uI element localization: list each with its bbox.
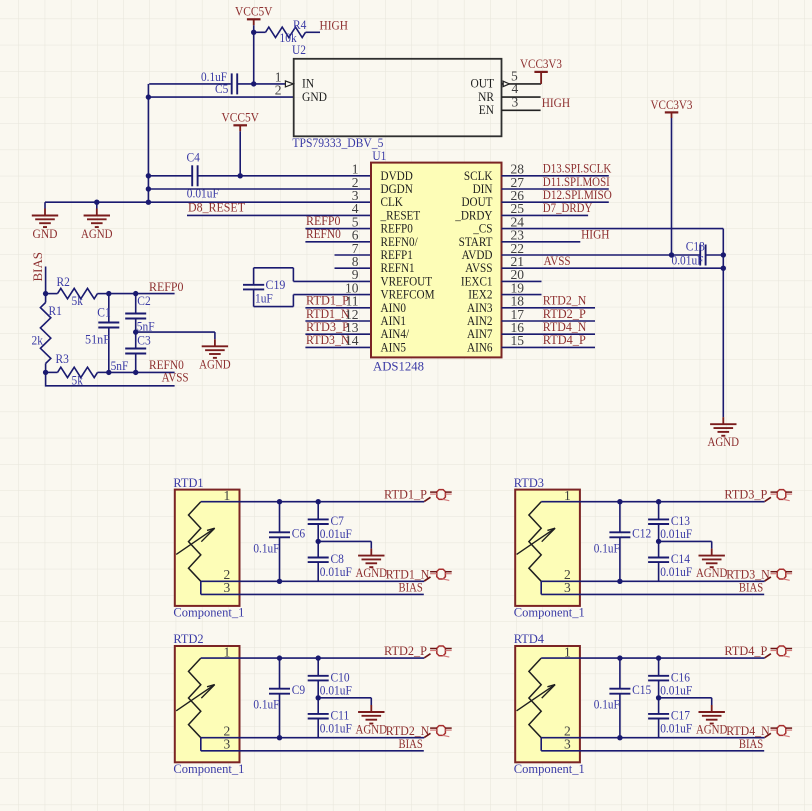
resistor R1 (40, 303, 50, 364)
ground AGND (bottom of right column) (722, 417, 724, 424)
wire pin1 RTD1 (201, 501, 424, 503)
svg-text:AGND: AGND (708, 434, 740, 449)
svg-text:3: 3 (224, 580, 231, 595)
svg-text:0.01uF: 0.01uF (320, 564, 352, 579)
svg-text:0.01uF: 0.01uF (660, 526, 692, 541)
capacitor C13 (658, 502, 660, 520)
svg-text:GND: GND (33, 226, 58, 241)
wire U1 pin 20 stub (502, 280, 542, 282)
wire BIAS vertical (45, 267, 47, 294)
wire to AGND (R network) (136, 331, 215, 333)
svg-text:2k: 2k (32, 333, 44, 348)
connector RTD3_N (765, 577, 771, 581)
net label D11.SPI.MOSI / wire U1 pin 27 (502, 188, 609, 190)
svg-text:HIGH: HIGH (581, 227, 609, 242)
svg-text:0.01uF: 0.01uF (320, 682, 352, 697)
node R1/R2 junction (43, 291, 48, 296)
ground AGND (top) (94, 200, 99, 205)
RTD zigzag RTD1 (189, 502, 201, 582)
capacitor C16 (658, 658, 660, 676)
wire U1 pin 7 stub (335, 254, 372, 256)
svg-text:AVSS: AVSS (162, 370, 189, 385)
wire pin2-pin3 vertical RTD2 (200, 738, 202, 751)
svg-text:C4: C4 (187, 149, 201, 164)
wire right column vertical (722, 229, 724, 418)
svg-text:HIGH: HIGH (320, 17, 348, 32)
svg-text:0.01uF: 0.01uF (187, 185, 219, 200)
svg-text:GND: GND (302, 89, 327, 104)
svg-text:1: 1 (224, 644, 231, 659)
power VCC3V3 (right) (665, 111, 679, 113)
net label HIGH / wire U1 pin 23 (502, 241, 581, 243)
svg-text:0.1uF: 0.1uF (594, 697, 620, 712)
capacitor C6 (279, 502, 281, 533)
capacitor C18 (699, 245, 701, 266)
node bus/GND-wire junction (146, 94, 151, 99)
svg-text:Component_1: Component_1 (173, 761, 244, 776)
connector RTD1_N (424, 577, 430, 581)
svg-text:RTD2: RTD2 (173, 631, 203, 646)
capacitor C3 (135, 332, 137, 348)
net label REFP0 / wire to U1 pin 5 (305, 228, 371, 230)
net label RTD1_N / wire to U1 pin 12 (305, 320, 371, 322)
wire pin3 BIAS RTD3 (541, 593, 764, 595)
svg-text:Component_1: Component_1 (173, 604, 244, 619)
svg-text:REFN0: REFN0 (306, 226, 341, 241)
svg-text:VCC3V3: VCC3V3 (520, 56, 562, 71)
node AVDD/column junction (721, 252, 726, 257)
svg-text:C2: C2 (137, 293, 150, 308)
svg-text:EN: EN (479, 102, 495, 117)
RTD arrow RTD2 (176, 685, 215, 711)
power VCC5V (second) (233, 124, 247, 126)
net label RTD4_N / wire U1 pin 16 (502, 333, 596, 335)
capacitor C11 (317, 698, 319, 714)
wire mid to AGND RTD1 (318, 540, 371, 542)
svg-text:C3: C3 (137, 333, 150, 348)
wire U1 pin 22 AVDD (502, 254, 701, 256)
svg-text:VCC3V3: VCC3V3 (651, 97, 693, 112)
component RTD4 (RTD) (515, 646, 580, 762)
svg-text:C1: C1 (97, 304, 110, 319)
node AVDD/VCC3V3 junction (669, 252, 674, 257)
IC U1 ADS1248 (371, 163, 502, 358)
svg-text:C18: C18 (686, 239, 705, 254)
power VCC3V3 (U2 OUT) (534, 71, 547, 73)
node C2/C3 junction (133, 329, 138, 334)
net label REFN0 / wire to U1 pin 6 (305, 241, 371, 243)
svg-text:ADS1248: ADS1248 (373, 359, 424, 374)
svg-text:BIAS: BIAS (739, 736, 763, 751)
svg-text:R1: R1 (49, 303, 62, 318)
svg-text:1: 1 (564, 644, 571, 659)
svg-text:AIN6: AIN6 (467, 339, 493, 354)
RTD arrow RTD4 (517, 685, 556, 711)
node VCC5V/C4 junction (238, 173, 243, 178)
RTD zigzag RTD4 (529, 658, 541, 738)
RTD zigzag RTD2 (189, 658, 201, 738)
wire pin2 RTD2 (201, 737, 424, 739)
wire pin2-pin3 vertical RTD4 (540, 738, 542, 751)
net label RTD3_N / wire to U1 pin 14 (305, 346, 371, 348)
wire C5 left to bus corner (149, 83, 231, 85)
node VCC5V/R4 junction (251, 30, 256, 35)
ground AGND (RTD4) (711, 698, 713, 705)
wire mid to AGND RTD4 (659, 697, 712, 699)
resistor R3 (46, 371, 58, 373)
capacitor C4 (148, 175, 192, 177)
wire pin1 RTD4 (541, 657, 765, 659)
component RTD3 (RTD) (515, 490, 580, 606)
svg-text:2: 2 (275, 83, 282, 98)
wire mid to AGND RTD2 (318, 697, 371, 699)
node bus/DVDD junction (146, 173, 151, 178)
wire U1 pin 8 stub (335, 267, 372, 269)
wire REFP0 net (109, 293, 175, 295)
ground GND (44, 202, 46, 208)
wire pin3 BIAS RTD4 (541, 750, 764, 752)
net label RTD4_P / wire U1 pin 15 (502, 346, 596, 348)
svg-text:3: 3 (564, 736, 571, 751)
net label D13.SPI.SCLK / wire U1 pin 28 (502, 175, 609, 177)
svg-text:R3: R3 (56, 351, 69, 366)
svg-text:VCC5V: VCC5V (235, 4, 273, 19)
node R2/C1 junction (106, 291, 111, 296)
svg-text:3: 3 (224, 736, 231, 751)
svg-text:RTD2_P: RTD2_P (384, 643, 427, 658)
svg-text:5nF: 5nF (111, 358, 129, 373)
svg-text:REFP0: REFP0 (149, 279, 184, 294)
component RTD1 (RTD) (175, 490, 240, 606)
svg-text:51nF: 51nF (85, 331, 110, 346)
svg-text:0.1uF: 0.1uF (253, 697, 279, 712)
svg-text:TPS79333_DBV_5: TPS79333_DBV_5 (292, 135, 383, 150)
svg-text:0.01uF: 0.01uF (672, 253, 704, 268)
svg-text:C12: C12 (632, 525, 651, 540)
RTD arrow RTD1 (176, 528, 215, 554)
capacitor C15 (619, 658, 621, 689)
svg-text:1: 1 (564, 488, 571, 503)
net label AVSS / wire U1 pin 21 (502, 267, 724, 269)
wire GND net to U1 pin 3 (45, 201, 371, 203)
resistor R4 (254, 31, 266, 33)
capacitor C14 (658, 541, 660, 557)
svg-text:D8_RESET: D8_RESET (188, 199, 245, 214)
svg-text:HIGH: HIGH (542, 95, 570, 110)
component RTD2 (RTD) (175, 646, 240, 762)
IC U2 regulator TPS79333 (294, 59, 502, 137)
wire REFN0 net (109, 371, 175, 373)
svg-text:5nF: 5nF (137, 318, 155, 333)
connector RTD2_P (424, 654, 430, 658)
wire pin3 BIAS RTD1 (201, 593, 424, 595)
svg-text:BIAS: BIAS (399, 736, 423, 751)
svg-text:0.01uF: 0.01uF (320, 721, 352, 736)
pin 4 NR wire U2 (502, 96, 541, 98)
resistor R2 (46, 293, 58, 295)
capacitor C5 (230, 83, 232, 85)
net label RTD1_P / wire to U1 pin 11 (305, 307, 371, 309)
ground AGND (RTD3) (711, 541, 713, 548)
wire U2 GND to bus (148, 96, 293, 98)
svg-text:0.01uF: 0.01uF (320, 526, 352, 541)
svg-text:RTD3_P: RTD3_P (724, 487, 767, 502)
capacitor C10 (317, 658, 319, 676)
svg-text:Component_1: Component_1 (514, 604, 585, 619)
svg-text:5k: 5k (72, 293, 84, 308)
net label D8_RESET / wire to U1 pin 4 (187, 214, 371, 216)
connector RTD4_N (765, 733, 771, 737)
ground AGND (R network) (214, 332, 216, 339)
svg-text:Component_1: Component_1 (514, 761, 585, 776)
wire U1 pin 24 _CS to right column (502, 228, 724, 230)
wire pin2 RTD3 (541, 580, 765, 582)
capacitor C2 (135, 294, 137, 314)
svg-text:AIN5: AIN5 (381, 339, 407, 354)
svg-text:RTD4_P: RTD4_P (724, 643, 767, 658)
connector RTD4_P (765, 654, 771, 658)
connector RTD1_P (424, 497, 430, 501)
node C2 top junction (133, 291, 138, 296)
svg-text:RTD4: RTD4 (514, 631, 545, 646)
svg-text:RTD1: RTD1 (173, 475, 203, 490)
svg-text:U1: U1 (372, 148, 386, 163)
wire pin3 BIAS RTD2 (201, 750, 424, 752)
capacitor C17 (658, 698, 660, 714)
svg-text:AGND: AGND (199, 357, 231, 372)
wire C5 right to U2 pin 1 (238, 83, 285, 85)
RTD arrow RTD3 (517, 528, 556, 554)
svg-text:AGND: AGND (696, 565, 728, 580)
wire DVDD to U1 pin 1 (240, 175, 371, 177)
svg-text:AGND: AGND (81, 226, 113, 241)
wire pin2-pin3 vertical RTD1 (200, 581, 202, 594)
svg-text:C15: C15 (632, 682, 651, 697)
wire left bus vertical (147, 84, 149, 202)
svg-text:BIAS: BIAS (739, 580, 763, 595)
wire AVSS net (46, 372, 175, 385)
net label RTD2_N / wire U1 pin 18 (502, 307, 596, 309)
capacitor C9 (279, 658, 281, 689)
svg-text:AVSS: AVSS (544, 253, 571, 268)
wire pin1 RTD2 (201, 657, 424, 659)
svg-text:0.1uF: 0.1uF (253, 540, 279, 555)
svg-text:0.01uF: 0.01uF (660, 564, 692, 579)
net label RTD2_P / wire U1 pin 17 (502, 320, 596, 322)
svg-text:0.01uF: 0.01uF (660, 682, 692, 697)
svg-text:1uF: 1uF (255, 290, 273, 305)
svg-text:BIAS: BIAS (399, 580, 423, 595)
node R3/C1 junction (43, 370, 48, 375)
svg-text:C9: C9 (292, 682, 305, 697)
capacitor C8 (317, 541, 319, 557)
pin 1 IN arrow U2 (285, 81, 293, 87)
svg-text:1: 1 (224, 488, 231, 503)
wire pin2 RTD1 (201, 580, 424, 582)
ground AGND (RTD2) (370, 698, 372, 705)
svg-text:U2: U2 (292, 42, 306, 57)
svg-text:AGND: AGND (356, 565, 388, 580)
pin 5 OUT wire U2 (502, 83, 542, 85)
svg-text:0.01uF: 0.01uF (660, 721, 692, 736)
svg-text:AGND: AGND (356, 722, 388, 737)
svg-text:RTD1_P: RTD1_P (384, 487, 427, 502)
capacitor C12 (619, 502, 621, 533)
svg-text:R2: R2 (57, 274, 70, 289)
wire DGDN to U1 pin 2 (148, 188, 371, 190)
capacitor C7 (317, 502, 319, 520)
svg-text:0.1uF: 0.1uF (594, 540, 620, 555)
connector RTD3_P (765, 497, 771, 501)
node C5/VCC5V junction (251, 81, 256, 86)
connector RTD2_N (424, 733, 430, 737)
svg-text:VCC5V: VCC5V (221, 110, 259, 125)
net label D12.SPI.MISO / wire U1 pin 26 (502, 201, 609, 203)
wire pin2 RTD4 (541, 737, 765, 739)
ground AGND (RTD1) (370, 541, 372, 548)
pin 3 EN wire U2 (502, 109, 541, 111)
net label D7_DRDY / wire U1 pin 25 (502, 214, 589, 216)
svg-text:RTD4_P: RTD4_P (543, 332, 586, 347)
svg-text:14: 14 (345, 333, 359, 348)
svg-text:RTD3: RTD3 (514, 475, 544, 490)
wire pin1 RTD3 (541, 501, 765, 503)
power VCC5V (top) (247, 18, 261, 20)
wire mid to AGND RTD3 (659, 540, 712, 542)
svg-text:D7_DRDY: D7_DRDY (543, 200, 593, 215)
capacitor C1 (108, 294, 110, 323)
net label RTD3_P / wire to U1 pin 13 (305, 333, 371, 335)
svg-text:C6: C6 (292, 525, 306, 540)
capacitor C19 loop (293, 280, 371, 282)
wire U1 pin 19 stub (502, 294, 542, 296)
svg-text:3: 3 (564, 580, 571, 595)
svg-text:BIAS: BIAS (30, 252, 45, 282)
svg-text:15: 15 (511, 333, 525, 348)
svg-text:RTD3_N: RTD3_N (306, 332, 350, 347)
wire VCC5V rail down to C5 row (253, 32, 255, 84)
RTD zigzag RTD3 (529, 502, 541, 582)
wire pin2-pin3 vertical RTD3 (540, 581, 542, 594)
svg-text:AGND: AGND (696, 722, 728, 737)
